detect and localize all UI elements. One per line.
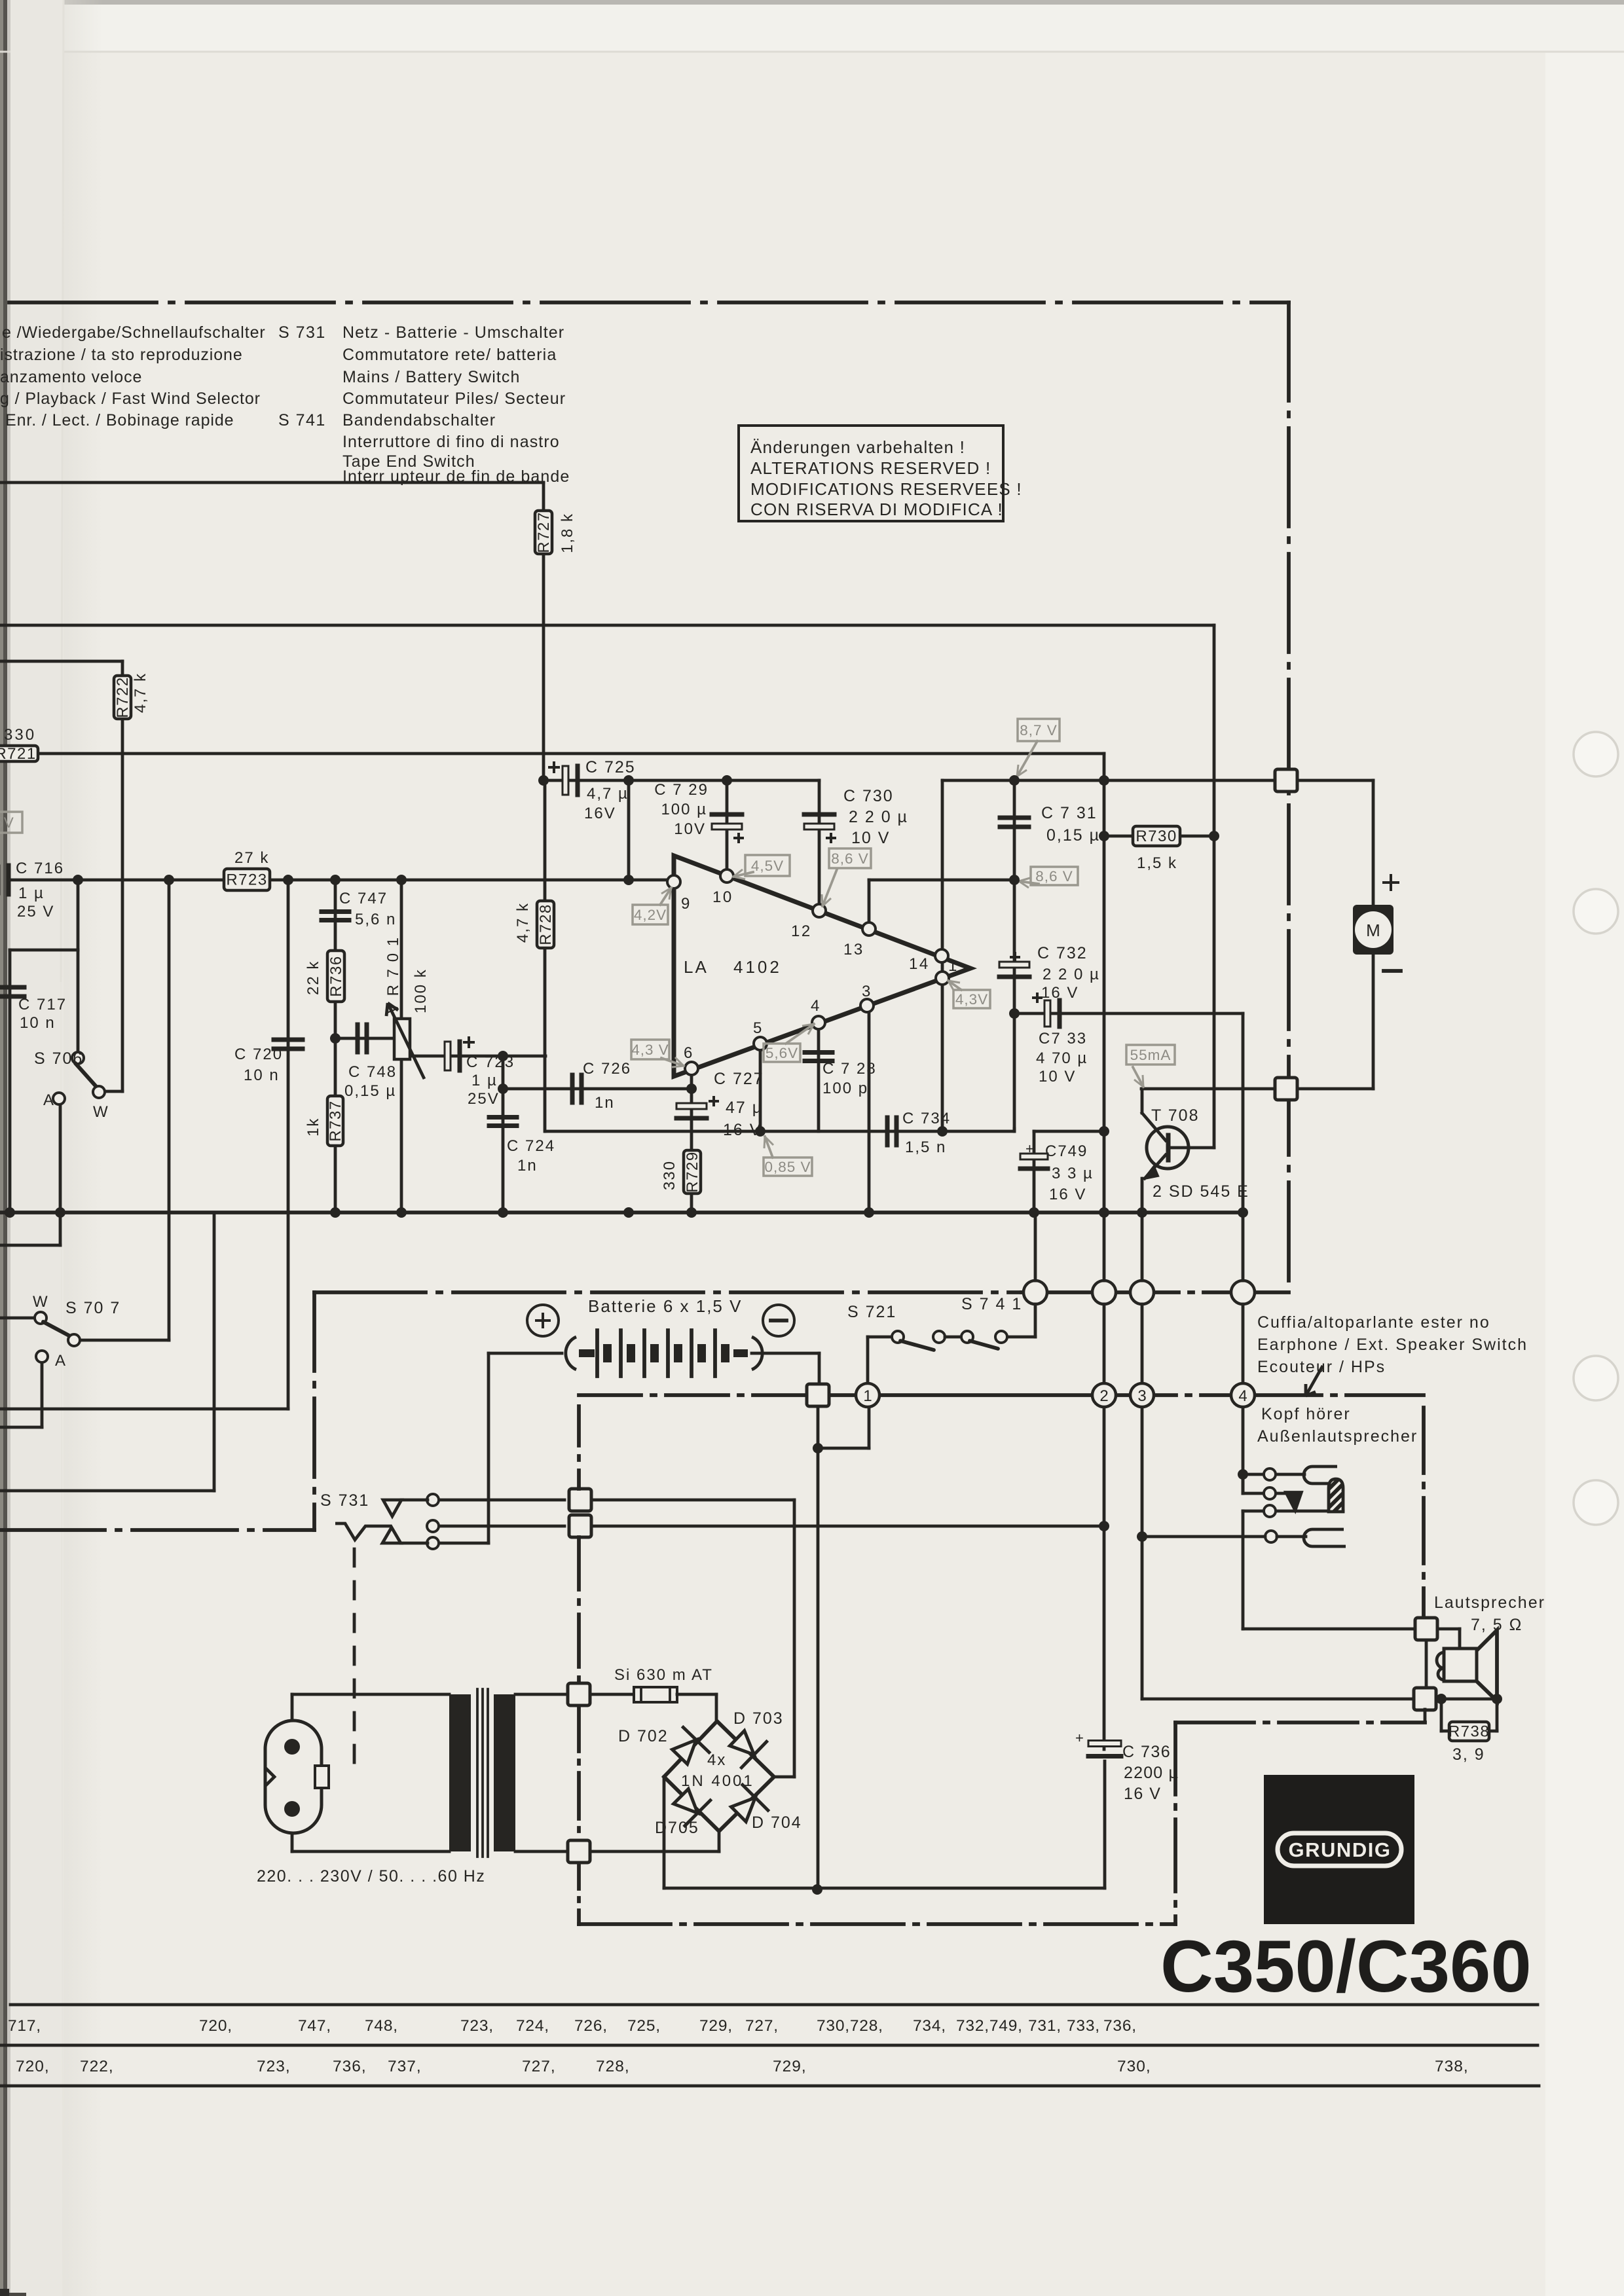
punch hole at y=1152 <box>1574 732 1618 776</box>
svg-text:330: 330 <box>4 726 36 744</box>
svg-text:Commutateur Piles/ Secteur: Commutateur Piles/ Secteur <box>342 390 566 408</box>
wire: column x=1898 segments <box>1242 1212 1245 1281</box>
svg-text:T 708: T 708 <box>1151 1106 1199 1125</box>
wire: C723 wiper rail y=1613 <box>409 1055 545 1058</box>
schematic frame: bottom-left dash-dot border to page edge <box>0 1528 314 1532</box>
svg-text:6: 6 <box>684 1044 694 1062</box>
switch S731 contact (mid) <box>438 1525 564 1528</box>
svg-text:D705: D705 <box>655 1819 699 1837</box>
wire: C731/C732 column x=1549 <box>1013 780 1016 1129</box>
svg-text:Enr. / Lect. / Bobinage rapide: Enr. / Lect. / Bobinage rapide <box>5 411 234 429</box>
svg-text:8,6 V: 8,6 V <box>1035 868 1073 884</box>
wire: column x=1686 segments <box>1103 1212 1106 1281</box>
svg-text:S 7 4 1: S 7 4 1 <box>961 1295 1022 1313</box>
svg-text:D 702: D 702 <box>618 1727 669 1745</box>
bottom table rule 1 <box>10 2003 1538 2007</box>
capacitor C717 (10n) <box>0 985 24 990</box>
svg-text:732,749,: 732,749, <box>956 2017 1023 2035</box>
bottom table rule 2 <box>0 2044 1538 2047</box>
svg-text:LA: LA <box>684 957 709 977</box>
wire: playback bus corner x=327 <box>213 1212 216 1491</box>
svg-text:R736: R736 <box>327 955 345 996</box>
svg-text:W: W <box>93 1103 109 1121</box>
svg-text:747,: 747, <box>298 2017 331 2035</box>
svg-text:4,3V: 4,3V <box>955 991 988 1008</box>
potentiometer VR701 (100k) <box>394 1019 410 1059</box>
svg-text:722,: 722, <box>80 2058 114 2075</box>
pointer arrow to jack <box>1306 1366 1323 1396</box>
svg-text:4,7 µ: 4,7 µ <box>587 785 629 803</box>
svg-text:Außenlautsprecher: Außenlautsprecher <box>1257 1427 1418 1446</box>
svg-text:CON RISERVA DI MODIFICA !: CON RISERVA DI MODIFICA ! <box>750 500 1003 519</box>
svg-text:C 727: C 727 <box>714 1070 764 1088</box>
svg-text:3 3 µ: 3 3 µ <box>1052 1165 1094 1182</box>
transformer TR1 <box>449 1694 471 1851</box>
svg-text:731,: 731, <box>1028 2017 1061 2035</box>
svg-text:R727: R727 <box>535 511 553 553</box>
svg-text:C 730: C 730 <box>843 787 894 805</box>
terminal circle 3 <box>1130 1383 1154 1407</box>
wire: terminal row y=2131 solid section <box>807 1393 1142 1397</box>
capacitor C729 (100µ 10V, polarized) <box>712 812 742 817</box>
wire: circle 3 column to speaker bottom square <box>1142 1698 1414 1701</box>
capacitor C725 (4,7µ 16V, polarized) <box>563 766 568 795</box>
wire: pin 3 riser x=1327 down to ground bus <box>868 1006 871 1212</box>
svg-text:4: 4 <box>1238 1387 1247 1405</box>
svg-text:25V: 25V <box>468 1090 500 1108</box>
wire: motor + riser x=2097 <box>1372 780 1375 905</box>
svg-text:1,5 k: 1,5 k <box>1137 854 1177 872</box>
svg-text:V R 7 0 1: V R 7 0 1 <box>384 936 402 1013</box>
resistor R727 (1,8k) <box>535 511 552 554</box>
svg-text:C 747: C 747 <box>339 890 388 907</box>
svg-text:Interruttore di fino di nas: Interruttore di fino di nastro <box>342 433 560 451</box>
headphone jack: tip contact <box>1243 1473 1304 1476</box>
svg-text:Kopf hörer: Kopf hörer <box>1261 1405 1351 1423</box>
svg-text:1 µ: 1 µ <box>471 1072 498 1089</box>
connector square (secondary top) <box>568 1683 590 1705</box>
schematic frame: right dash-dot border <box>1287 302 1291 1292</box>
svg-text:R722: R722 <box>114 676 132 718</box>
schematic frame: left dash-dot border segment <box>312 1292 316 1530</box>
op-amp pin 13 <box>862 922 876 936</box>
wire: top rail y=732 to R727 <box>0 481 544 484</box>
wire: rail link x=1686 (y1151 corner down to ground bus) <box>1103 754 1106 1212</box>
svg-text:100 k: 100 k <box>412 968 430 1013</box>
voltage callout 55mA <box>1126 1045 1175 1065</box>
voltage callout 5,6V <box>764 1044 800 1062</box>
svg-text:16V: 16V <box>584 805 616 822</box>
diode D703 <box>724 1724 768 1769</box>
svg-text:A: A <box>43 1091 54 1109</box>
wire: pin 4 / C728 riser x=1250 <box>817 1024 821 1131</box>
op-amp U1 LA 4102 triangle <box>674 856 970 1076</box>
connector circle (frame, supply column) <box>1092 1281 1116 1304</box>
svg-text:100 p: 100 p <box>822 1080 868 1097</box>
voltage callout 4,2V <box>633 905 668 924</box>
wire: S706 input column x=258 <box>168 880 171 1340</box>
svg-text:Si 630 m AT: Si 630 m AT <box>614 1666 713 1684</box>
voltage callout 4,5V <box>745 855 790 876</box>
capacitor C736 (2200µ 16V) <box>1088 1741 1121 1747</box>
svg-text:4: 4 <box>811 997 821 1015</box>
svg-text:3, 9: 3, 9 <box>1452 1745 1485 1764</box>
svg-text:1: 1 <box>863 1387 872 1405</box>
svg-text:C 734: C 734 <box>902 1110 951 1127</box>
punch hole at y=2105 <box>1574 1356 1618 1400</box>
svg-text:734,: 734, <box>913 2017 946 2035</box>
wire: C733 column x=1898 down to ground bus <box>1242 1013 1245 1212</box>
op-amp pin 14 <box>935 949 948 962</box>
resistor R721 (330) <box>0 746 38 761</box>
svg-text:727,: 727, <box>522 2058 556 2075</box>
wire: pin 13 riser <box>868 880 871 929</box>
svg-text:16 V: 16 V <box>1124 1785 1161 1803</box>
svg-text:55mA: 55mA <box>1130 1047 1172 1063</box>
svg-text:+: + <box>1075 1730 1084 1746</box>
svg-text:1N 4001: 1N 4001 <box>681 1772 754 1790</box>
wire: column x=1581 circle to S741 <box>1034 1212 1037 1281</box>
svg-text:Cuffia/altoparlante ester no: Cuffia/altoparlante ester no <box>1257 1313 1490 1332</box>
motor - polarity mark <box>1384 969 1401 973</box>
svg-text:10 V: 10 V <box>1039 1068 1076 1085</box>
svg-text:C749: C749 <box>1045 1142 1088 1160</box>
svg-text:4,7 k: 4,7 k <box>132 672 149 713</box>
svg-text:S 721: S 721 <box>847 1303 896 1321</box>
fuse Si 630mAT <box>634 1687 677 1702</box>
svg-text:3: 3 <box>1137 1387 1146 1405</box>
wire: battery minus column down to rectifier rail <box>817 1448 820 1889</box>
svg-text:Mains / Battery Switch: Mains / Battery Switch <box>342 368 521 386</box>
wire: feedback rail y=1728 <box>545 1130 1014 1133</box>
voltage callout 4,3V (pin 6) <box>631 1040 669 1059</box>
svg-text:736,: 736, <box>1103 2017 1137 2035</box>
svg-text:720,: 720, <box>199 2017 232 2035</box>
connector square (secondary bottom) <box>568 1840 590 1863</box>
svg-text:4,2V: 4,2V <box>634 907 667 923</box>
connector circle (frame, headphone column) <box>1231 1281 1255 1304</box>
svg-text:2200 µ: 2200 µ <box>1124 1764 1179 1782</box>
node: bridge DC+ to switch column <box>774 1776 794 1779</box>
wire: sleeve to speaker top square <box>1243 1628 1415 1631</box>
connector circle (frame, above C749 column) <box>1024 1281 1047 1304</box>
svg-text:8,6 V: 8,6 V <box>831 850 869 867</box>
resistor R738 (3,9) across speaker <box>1436 1698 1496 1701</box>
wire: S706 A lead down to page edge <box>59 1102 62 1245</box>
headphone jack: lower aux contact <box>1265 1531 1277 1542</box>
svg-text:717,: 717, <box>8 2017 41 2035</box>
svg-text:5,6 n: 5,6 n <box>355 911 396 928</box>
connector circle (frame, emitter column) <box>1130 1281 1154 1304</box>
svg-text:C 726: C 726 <box>583 1060 631 1078</box>
wire: input rail y=1344 to op-amp pin 9 <box>9 879 674 882</box>
wire: C736 column corner <box>1103 1761 1107 1888</box>
svg-text:C 725: C 725 <box>585 758 636 776</box>
op-amp pin 1 <box>936 972 949 985</box>
svg-text:C350/C360: C350/C360 <box>1160 1925 1532 2007</box>
svg-text:A: A <box>55 1352 66 1370</box>
svg-text:ALTERATIONS RESERVED !: ALTERATIONS RESERVED ! <box>750 458 991 478</box>
bottom table rule 3 <box>0 2085 1539 2088</box>
wire: battery minus link to circle 1 <box>817 1406 820 1448</box>
svg-text:R728: R728 <box>537 903 555 945</box>
wire: secondary bottom to rectifier bottom node <box>515 1850 567 1853</box>
connector square on frame (motor -) <box>1275 1078 1297 1100</box>
svg-text:4,3 V: 4,3 V <box>631 1042 669 1058</box>
wire: pin13 feedback rail y=1344 right segment <box>869 879 1014 882</box>
svg-text:istrazione / ta sto reproduzio: istrazione / ta sto reproduzione <box>0 346 243 364</box>
svg-text:330: 330 <box>661 1160 678 1190</box>
wire: R728 column x=832 (C725 node down to feedback rail) <box>544 780 547 1131</box>
speaker LS1 7,5 ohm <box>1437 1628 1460 1631</box>
wire: motor - riser x=2097 <box>1372 954 1375 1089</box>
wire: S707 W stub y=2013 <box>0 1317 35 1320</box>
svg-text:723,: 723, <box>257 2058 291 2075</box>
wire: C720 column x=440 <box>287 880 290 1409</box>
connector square on frame (motor +) <box>1275 769 1297 792</box>
wire: VR701 column x=613 <box>400 880 403 1019</box>
svg-text:1k: 1k <box>304 1118 322 1137</box>
switch S706 <box>72 1052 84 1064</box>
capacitor C720 (10n) <box>274 1038 303 1042</box>
svg-text:9: 9 <box>681 895 692 913</box>
wire: C730 riser x=1251 <box>818 780 821 911</box>
svg-text:733,: 733, <box>1067 2017 1100 2035</box>
wire: supply node rail y=1192 (right segment to motor) <box>942 779 1373 782</box>
alterations reserved box <box>739 426 1003 521</box>
svg-text:Batterie 6 x 1,5 V: Batterie 6 x 1,5 V <box>588 1296 742 1316</box>
svg-text:728,: 728, <box>596 2058 630 2075</box>
GRUNDIG logo block <box>1264 1775 1414 1924</box>
wire: fuse to rectifier top node <box>677 1693 716 1696</box>
wire: ground bus y=1852 <box>0 1211 1243 1214</box>
headphone jack: upper prong <box>1304 1467 1342 1484</box>
svg-text:C 724: C 724 <box>507 1137 555 1155</box>
dash-dot return rail x=1795 <box>1173 1722 1177 1924</box>
diode D702 <box>666 1726 710 1771</box>
svg-text:720,: 720, <box>16 2058 50 2075</box>
svg-text:0,15 µ: 0,15 µ <box>344 1082 396 1100</box>
capacitor C749 (33µ 16V, polarized) <box>1034 1130 1104 1133</box>
op-amp pin 4 <box>812 1016 825 1029</box>
svg-text:C 7 29: C 7 29 <box>654 781 709 799</box>
battery plus terminal circle <box>527 1305 559 1336</box>
op-amp pin 10 <box>720 869 733 883</box>
transistor Q1 T708 (2SD545E) <box>1141 1089 1144 1113</box>
resistor R729 (330) <box>684 1150 701 1194</box>
resistor R736 (22k) <box>327 951 344 1002</box>
capacitor C731 (0,15µ) <box>1000 816 1029 820</box>
resistor R728 (4,7k) <box>537 901 554 948</box>
capacitor C727 (47µ 16V, polarized) <box>676 1103 707 1109</box>
op-amp pin 5 <box>754 1037 767 1050</box>
svg-text:16 V: 16 V <box>1049 1186 1086 1203</box>
svg-text:1,8 k: 1,8 k <box>559 513 576 553</box>
capacitor C734 (1,5n) <box>885 1118 890 1145</box>
connector square (battery minus) <box>807 1384 829 1406</box>
wire: R736/R737 column x=512 <box>334 880 337 1212</box>
wire: S731 top contact to connector square and rectifier + <box>569 1489 591 1511</box>
wire: speaker minus square to return dash-dot <box>1424 1709 1427 1722</box>
svg-text:R729: R729 <box>684 1151 701 1192</box>
svg-text:13: 13 <box>843 941 864 958</box>
svg-text:R737: R737 <box>327 1100 344 1141</box>
resistor R723 (27k) <box>224 869 270 890</box>
wire: pin 5 riser x=1161 <box>759 1045 762 1131</box>
wire: plug to transformer primary <box>291 1694 294 1721</box>
connector square (speaker -) <box>1414 1688 1436 1710</box>
wire: battery minus to connector square <box>752 1352 819 1355</box>
svg-text:Earphone / Ext. Speaker Switc: Earphone / Ext. Speaker Switch <box>1257 1336 1528 1354</box>
switch S731 contact (bottom, battery plus) <box>438 1542 489 1545</box>
svg-text:S 731: S 731 <box>320 1491 369 1510</box>
wire: supply node rail y=1192 (left segment with C725) <box>544 779 819 782</box>
dash-dot return rail y=2631 <box>1175 1721 1425 1724</box>
grey voltage callout 5V <box>0 812 22 833</box>
svg-text:1 µ: 1 µ <box>18 884 45 902</box>
dash-dot return rail y=2939 <box>579 1922 1175 1926</box>
wire: main rail y=1151 from R721 <box>38 752 1104 756</box>
op-amp pin 6 <box>685 1062 698 1075</box>
punch hole at y=1392 <box>1574 889 1618 934</box>
svg-text:R723: R723 <box>226 871 267 889</box>
svg-text:724,: 724, <box>516 2017 549 2035</box>
svg-text:Commutatore rete/ batteria: Commutatore rete/ batteria <box>342 346 557 364</box>
capacitor C730 (220µ 10V, polarized) <box>804 812 834 817</box>
wire: C716/C717 node link x=119 <box>77 880 80 950</box>
svg-text:10V: 10V <box>674 820 706 838</box>
svg-text:725,: 725, <box>627 2017 661 2035</box>
svg-text:anzamento veloce: anzamento veloce <box>0 368 142 386</box>
diode D704 <box>725 1783 769 1828</box>
junction dots <box>538 775 549 786</box>
svg-text:100 µ: 100 µ <box>661 801 707 818</box>
wire: C717 column x=15 <box>9 950 12 1212</box>
battery minus terminal circle <box>763 1305 794 1336</box>
svg-text:1: 1 <box>948 957 959 975</box>
motor + polarity mark <box>1382 874 1399 891</box>
switch S741 <box>945 1336 961 1339</box>
dash-dot speaker column x=2174 <box>1422 1408 1426 1618</box>
resistor R737 (1k) <box>327 1096 343 1146</box>
schematic frame: top dash-dot border <box>9 301 1289 304</box>
svg-text:4102: 4102 <box>733 957 782 977</box>
mechanical link (dashed) to mains plug switch <box>353 1549 356 1777</box>
wire: S731 mid contact rail y=2331 to headphone column <box>569 1515 591 1537</box>
wire: S707 moving-contact lead y=2047 <box>79 1339 169 1342</box>
svg-text:M: M <box>1366 920 1380 940</box>
svg-text:12: 12 <box>791 922 812 940</box>
capacitor C724 (1n) <box>489 1115 517 1120</box>
wire: S706 W stub <box>99 1090 122 1093</box>
svg-text:727,: 727, <box>745 2017 779 2035</box>
svg-text:5: 5 <box>753 1019 764 1037</box>
punch hole at y=2295 <box>1574 1480 1618 1525</box>
mains plug (220-230V) <box>265 1721 322 1833</box>
svg-text:27 k: 27 k <box>234 849 269 867</box>
svg-text:e /Wiedergabe/Schnellaufschalt: e /Wiedergabe/Schnellaufschalter <box>2 323 266 342</box>
svg-text:Lautsprecher: Lautsprecher <box>1434 1594 1545 1612</box>
bridge rectifier diamond (4x 1N4001) <box>664 1721 774 1831</box>
svg-text:730,: 730, <box>1117 2058 1151 2075</box>
wire: C720 bottom lead to page edge y=2152 <box>0 1408 288 1411</box>
wire: C717 branch y=1451 <box>10 949 78 952</box>
svg-text:D 704: D 704 <box>752 1813 802 1832</box>
wire: column x=960 (C725 right node to pin9 rail) <box>627 780 631 880</box>
wire: bridge DC- rail <box>663 1777 666 1888</box>
svg-text:729,: 729, <box>773 2058 807 2075</box>
svg-text:C7 33: C7 33 <box>1039 1030 1087 1048</box>
capacitor C723 (1µ 25V, polarized) <box>445 1042 451 1070</box>
capacitor C747 (5,6n) <box>322 909 349 914</box>
wire: S706 riser x=119 <box>77 950 80 1053</box>
svg-text:220. . . 230V / 50. . . .60: 220. . . 230V / 50. . . .60 Hz <box>257 1867 485 1886</box>
voltage callout 4,3V (pin 1) <box>953 990 990 1008</box>
terminal circle 1 <box>856 1383 879 1407</box>
svg-text:MODIFICATIONS RESERVEES !: MODIFICATIONS RESERVEES ! <box>750 479 1022 499</box>
svg-text:4 70 µ: 4 70 µ <box>1036 1049 1088 1067</box>
headphone jack: lower prong <box>1304 1529 1346 1546</box>
motor M1 <box>1353 905 1393 955</box>
svg-text:2: 2 <box>1099 1387 1108 1405</box>
svg-text:C 7 31: C 7 31 <box>1041 804 1098 822</box>
svg-text:Bandendabschalter: Bandendabschalter <box>342 411 496 429</box>
svg-text:S 706: S 706 <box>34 1049 83 1068</box>
svg-text:748,: 748, <box>365 2017 398 2035</box>
svg-text:4,5V: 4,5V <box>751 858 784 874</box>
terminal circle 2 <box>1092 1383 1116 1407</box>
svg-text:8,7 V: 8,7 V <box>1020 722 1058 738</box>
svg-text:Änderungen varbehalten !: Änderungen varbehalten ! <box>750 437 965 457</box>
wire: R730 right column x=1854 down to T708 base <box>1213 625 1216 1148</box>
wire: C733 rail y=1548 <box>1014 1012 1243 1015</box>
svg-text:D 703: D 703 <box>733 1709 784 1728</box>
svg-text:1,5 n: 1,5 n <box>905 1139 946 1156</box>
svg-text:+: + <box>1025 1140 1034 1157</box>
resistor R722 (4,7k) <box>114 676 131 719</box>
switch S707 <box>35 1312 46 1324</box>
svg-text:25 V: 25 V <box>17 903 54 920</box>
svg-text:S 731: S 731 <box>278 323 326 342</box>
voltage callout 0,85V <box>764 1157 812 1176</box>
svg-text:7, 5 Ω: 7, 5 Ω <box>1471 1616 1522 1634</box>
svg-text:2 2 0 µ: 2 2 0 µ <box>1043 966 1100 983</box>
svg-text:10: 10 <box>712 888 733 906</box>
svg-text:4,7 k: 4,7 k <box>514 902 532 943</box>
svg-text:2 SD 545 E: 2 SD 545 E <box>1153 1182 1249 1201</box>
svg-text:R738: R738 <box>1449 1723 1490 1741</box>
connector square (speaker +) <box>1415 1618 1437 1640</box>
wire: column x=1744 segments <box>1141 1212 1144 1281</box>
wire: terminal row y=2131 (dash-dot section left) <box>579 1393 807 1397</box>
svg-text:2 2 0 µ: 2 2 0 µ <box>849 808 908 826</box>
voltage callout 8,7V <box>1018 719 1060 741</box>
capacitor C726 (1n) <box>570 1075 575 1102</box>
wire: C748 stub y=1586 <box>335 1037 394 1040</box>
wire: R722 column x=187 (top corner wire y=1010) <box>0 660 122 663</box>
dash-dot connector column x=884 <box>577 1406 581 1489</box>
svg-text:Netz - Batterie - Umschalter: Netz - Batterie - Umschalter <box>342 323 564 342</box>
svg-text:1n: 1n <box>517 1157 538 1175</box>
svg-text:736,: 736, <box>333 2058 367 2075</box>
svg-text:737,: 737, <box>388 2058 422 2075</box>
wire: C729 riser x=1110 <box>726 780 729 876</box>
svg-text:5V: 5V <box>0 814 14 831</box>
headphone jack: sleeve contact <box>1242 1511 1245 1629</box>
svg-text:14: 14 <box>909 955 930 973</box>
svg-text:738,: 738, <box>1435 2058 1469 2075</box>
svg-text:C 720: C 720 <box>234 1046 283 1063</box>
